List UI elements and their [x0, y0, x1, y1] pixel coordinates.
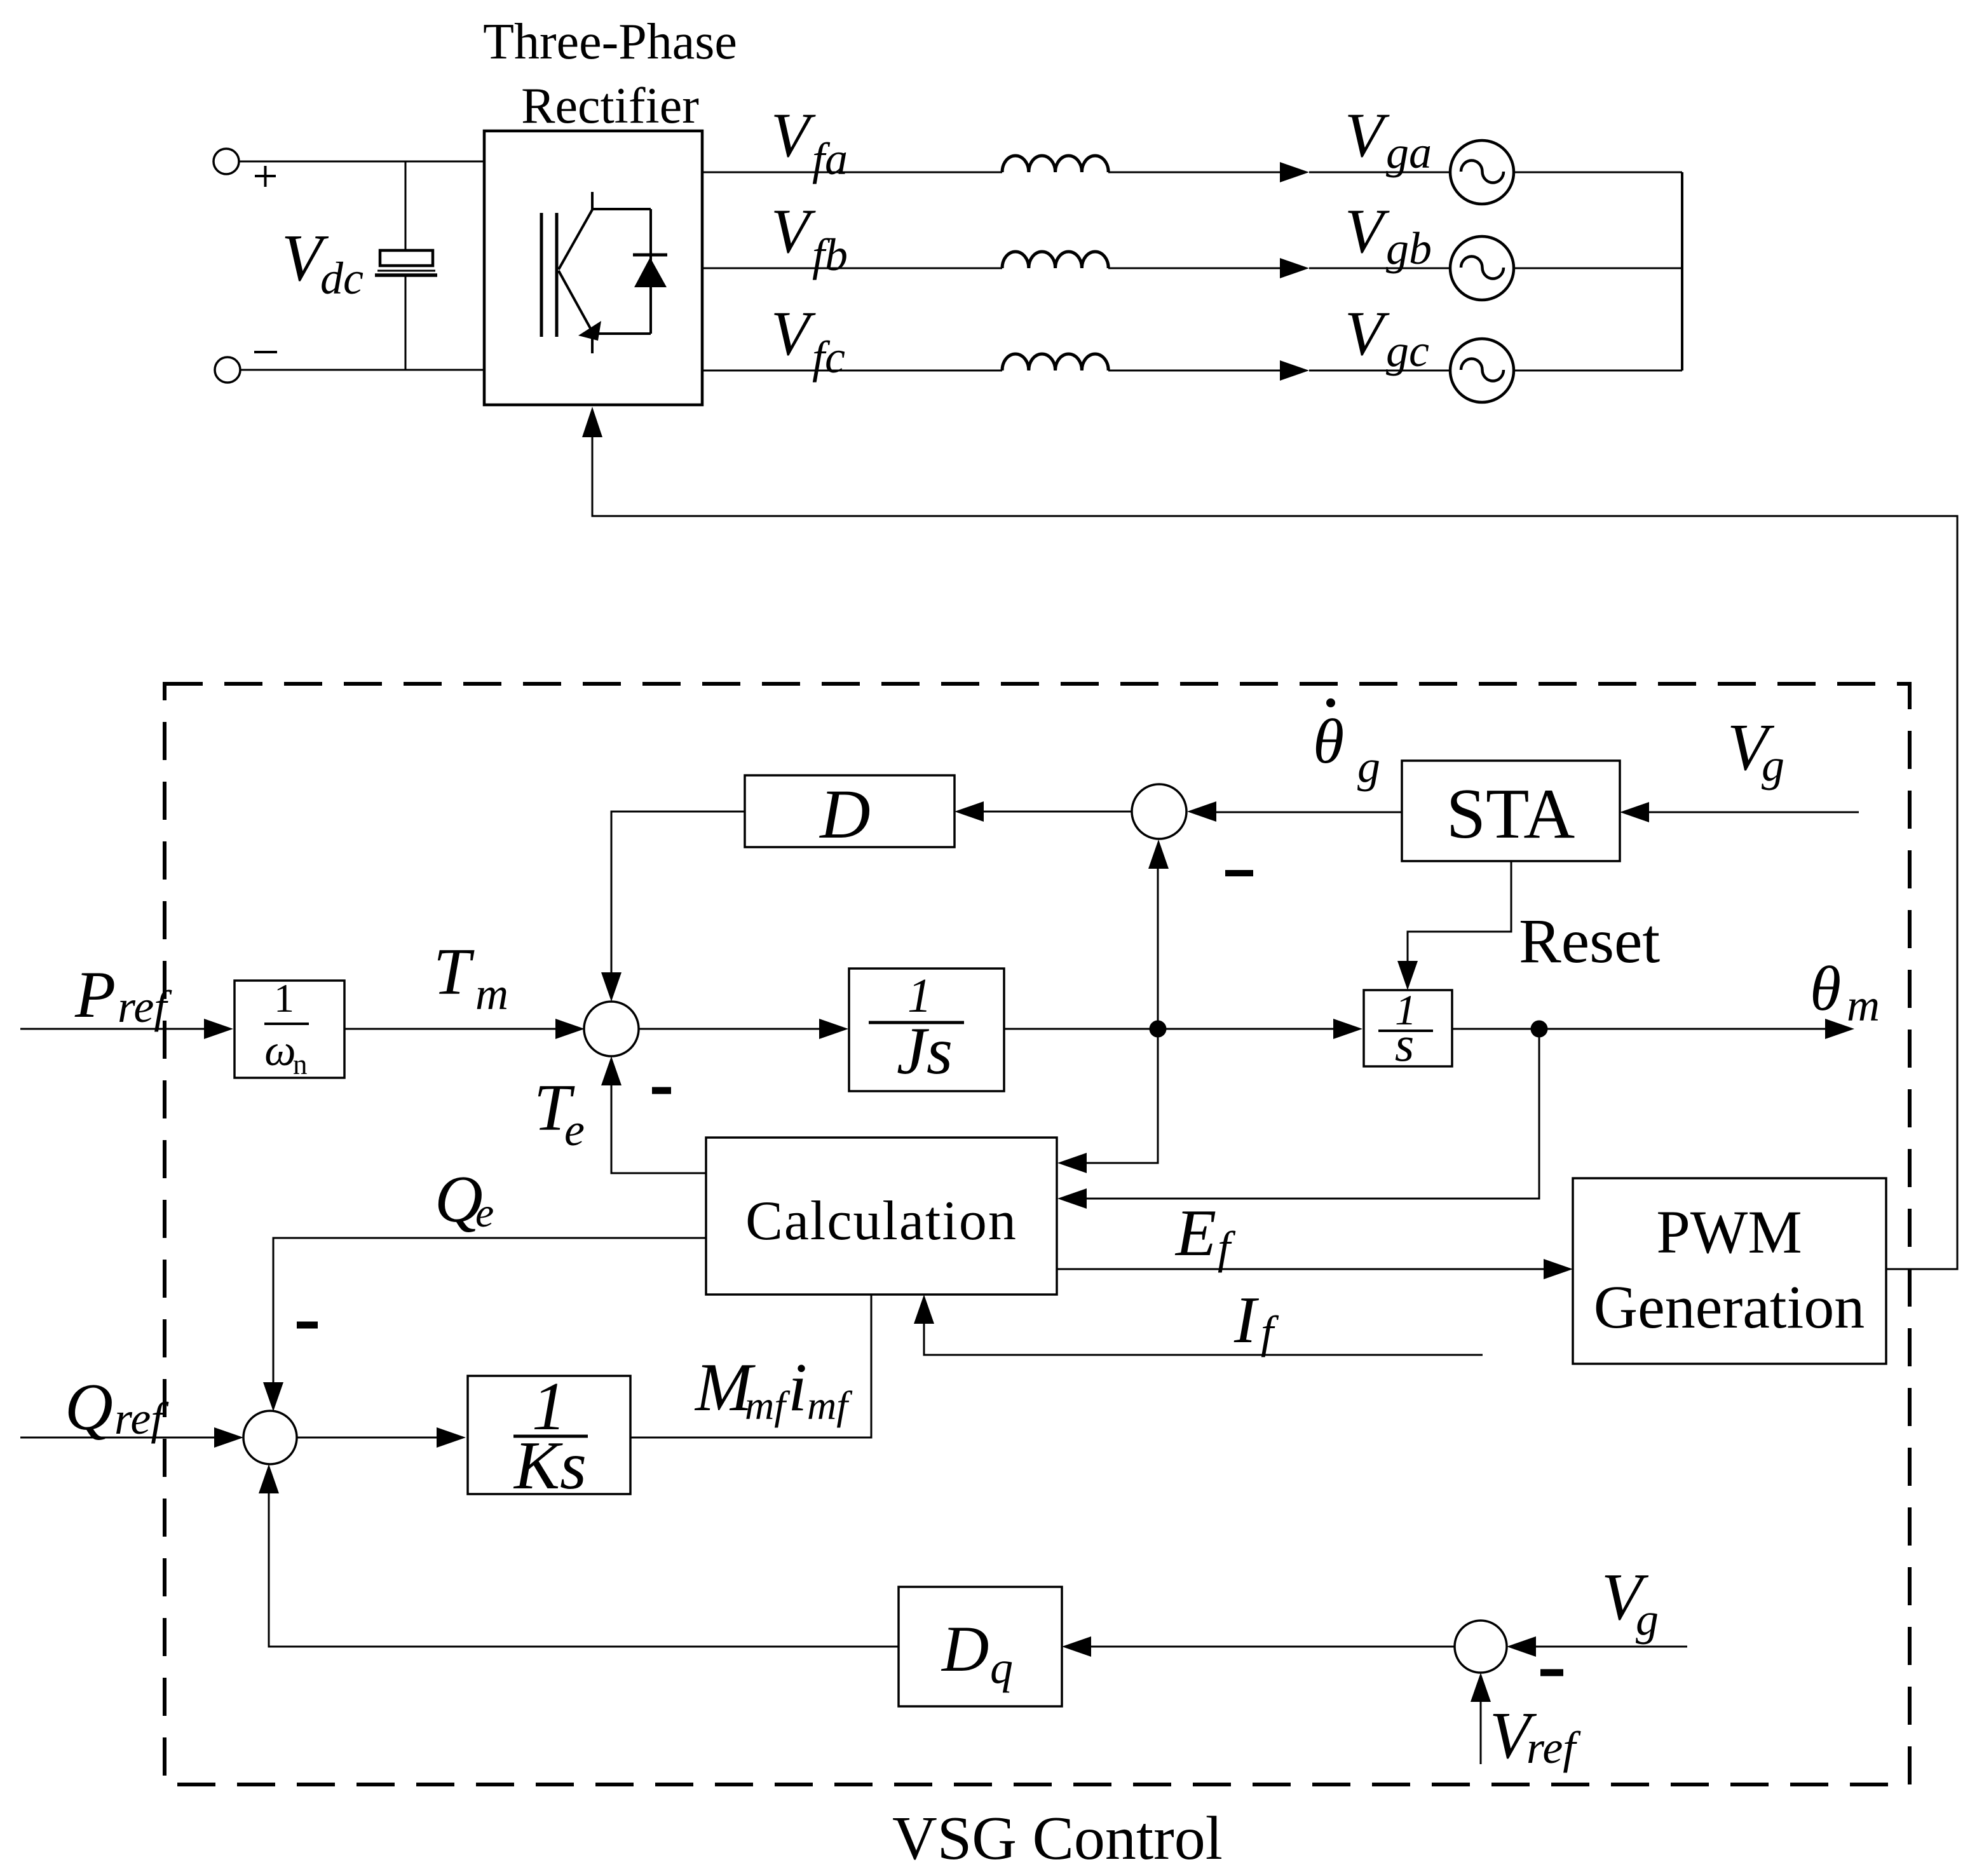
svg-text:f: f	[1218, 1222, 1236, 1273]
svg-text:V: V	[1345, 100, 1390, 170]
label Vg top	[1727, 710, 1784, 791]
terminal - (DC negative)	[215, 357, 240, 383]
arrow into sum2 bottom	[1148, 839, 1169, 869]
wire phase a to source	[1309, 172, 1450, 173]
arrow into Calculation right 2	[1057, 1188, 1087, 1209]
wire phase c left	[702, 370, 1002, 372]
arrow into PWM left	[1544, 1259, 1573, 1279]
svg-text:θ: θ	[1313, 706, 1344, 777]
minus sign at sum1	[652, 1087, 671, 1094]
label If	[1233, 1282, 1279, 1357]
wire Reset STA to 1/s	[1408, 861, 1511, 961]
bus vertical right	[1681, 172, 1683, 370]
svg-text:ref: ref	[118, 981, 172, 1032]
svg-text:V: V	[1345, 196, 1390, 266]
wire capacitor top	[405, 161, 407, 250]
block 1/Ks	[468, 1369, 630, 1504]
svg-text:ref: ref	[1526, 1722, 1581, 1773]
arrow into 1/s	[1333, 1019, 1362, 1039]
svg-text:Three-Phase: Three-Phase	[483, 14, 737, 70]
arrow into STA right	[1620, 802, 1649, 822]
summing junction S3	[243, 1411, 297, 1464]
inductor Lb	[1002, 252, 1108, 268]
label Vga	[1345, 100, 1432, 178]
svg-text:fa: fa	[812, 133, 848, 184]
svg-text:T: T	[433, 934, 475, 1009]
arrow into Calculation right 1	[1057, 1153, 1087, 1173]
svg-text:mf: mf	[745, 1383, 791, 1428]
svg-text:Reset: Reset	[1519, 906, 1660, 976]
arrow into 1/wn	[204, 1019, 233, 1039]
svg-text:s: s	[1395, 1016, 1414, 1071]
block 1/wn	[234, 975, 344, 1080]
AC source Vgc	[1450, 339, 1514, 402]
arrow into sum3	[214, 1427, 243, 1448]
wire Mmf imf to Calculation bottom	[630, 1295, 871, 1438]
freewheel diode D1	[633, 255, 667, 287]
wire phase c middle	[1108, 370, 1280, 372]
wire Qe Calculation to Qref sum top	[273, 1238, 706, 1382]
minus sign at sum3	[297, 1322, 318, 1329]
svg-text:STA: STA	[1446, 775, 1575, 853]
svg-text:θ: θ	[1810, 953, 1841, 1024]
label Mmf imf	[694, 1350, 853, 1428]
terminal + (DC positive)	[214, 149, 239, 174]
minus sign at sum2	[1225, 870, 1253, 876]
svg-text:Generation: Generation	[1594, 1273, 1865, 1341]
block Calculation	[706, 1138, 1057, 1295]
svg-text:Ks: Ks	[513, 1428, 587, 1504]
wire node A up to sum2	[1157, 869, 1159, 1029]
wire PWM output feedback to rectifier	[592, 437, 1957, 1269]
wire phase b left	[702, 268, 1002, 269]
svg-text:g: g	[1357, 741, 1380, 792]
VSG Control dashed boundary	[165, 684, 1910, 1784]
arrow into 1/Js	[819, 1019, 848, 1039]
label Vdc	[282, 221, 363, 304]
svg-text:gc: gc	[1386, 325, 1429, 376]
svg-text:gb: gb	[1386, 223, 1432, 274]
arrow into rectifier bottom	[582, 407, 602, 437]
minus sign at sum4	[1540, 1669, 1563, 1676]
arrow phase c	[1280, 360, 1309, 381]
node dot A	[1150, 1021, 1167, 1038]
block 1/Js	[849, 969, 1004, 1091]
label Ef	[1174, 1195, 1236, 1273]
arrow Qe into sum3 top	[263, 1382, 283, 1411]
svg-text:PWM: PWM	[1656, 1198, 1802, 1266]
block Dq	[899, 1587, 1062, 1706]
label Vref	[1490, 1698, 1581, 1773]
svg-text:Q: Q	[65, 1370, 113, 1444]
svg-text:g: g	[1762, 740, 1784, 791]
wire source b to bus	[1514, 268, 1682, 269]
svg-text:Rectifier: Rectifier	[521, 78, 699, 134]
label Vgb	[1345, 196, 1432, 274]
svg-text:m: m	[475, 969, 508, 1019]
label Vg bottom	[1601, 1560, 1659, 1645]
label Three-Phase Rectifier	[483, 14, 737, 134]
label theta_m	[1810, 953, 1880, 1031]
wire Qref input	[20, 1437, 214, 1439]
wire phase b to source	[1309, 268, 1450, 269]
arrow into Dq right	[1062, 1636, 1091, 1657]
wire Vg into sum4	[1536, 1646, 1687, 1648]
arrow phase b	[1280, 258, 1309, 278]
svg-text:E: E	[1174, 1195, 1216, 1270]
label theta_g dot	[1313, 698, 1380, 792]
wire STA to sum2	[1216, 812, 1402, 813]
svg-text:f: f	[1261, 1307, 1279, 1357]
wire phase c to source	[1309, 370, 1450, 372]
svg-text:ω: ω	[264, 1026, 296, 1075]
svg-text:e: e	[475, 1190, 494, 1236]
arrow phase a	[1280, 162, 1309, 182]
wire source a to bus	[1514, 172, 1682, 173]
svg-text:VSG Control: VSG Control	[892, 1804, 1223, 1873]
label Tm	[433, 934, 508, 1019]
block STA	[1402, 761, 1620, 861]
svg-text:D: D	[819, 775, 870, 853]
wire sum1 to 1/Js	[639, 1028, 819, 1030]
wire phase a left	[702, 172, 1002, 173]
wire Pref input	[20, 1028, 204, 1030]
svg-text:Calculation: Calculation	[745, 1190, 1017, 1252]
wire Te Calculation to sum1 bottom	[611, 1085, 706, 1173]
svg-text:Js: Js	[897, 1014, 953, 1088]
wire D to sum1 top	[611, 812, 745, 972]
label Vfb	[771, 196, 848, 280]
svg-text:g: g	[1636, 1594, 1659, 1645]
svg-text:m: m	[1847, 980, 1880, 1031]
arrow into sum1 top	[601, 972, 622, 1002]
IGBT symbol inside rectifier	[541, 192, 651, 353]
svg-text:fc: fc	[812, 332, 845, 383]
block PWM Generation	[1573, 1178, 1886, 1364]
block 1/s	[1364, 986, 1452, 1071]
wire phase a middle	[1108, 172, 1280, 173]
svg-text:V: V	[771, 196, 816, 266]
three-phase rectifier block U1	[484, 131, 702, 405]
wire theta feedback node B to Calculation	[1087, 1029, 1539, 1199]
svg-text:P: P	[74, 957, 116, 1031]
arrow into sum1 bottom	[601, 1056, 622, 1085]
svg-text:fb: fb	[812, 229, 848, 280]
svg-text:V: V	[771, 298, 816, 369]
svg-text:1: 1	[274, 975, 294, 1021]
block D	[745, 775, 955, 853]
arrow Vref into sum4	[1471, 1673, 1491, 1702]
node dot B	[1531, 1021, 1548, 1038]
wire Vref into sum4 bottom	[1480, 1702, 1482, 1764]
wire phase b middle	[1108, 268, 1280, 269]
arrow theta_m	[1825, 1019, 1854, 1039]
arrow into sum1	[555, 1019, 585, 1039]
label Vfc	[771, 298, 845, 383]
arrow into sum4 right	[1507, 1636, 1536, 1657]
wire source c to bus	[1514, 370, 1682, 372]
label Vfa	[771, 100, 848, 184]
svg-text:D: D	[941, 1613, 989, 1685]
summing junction S2	[1132, 784, 1186, 839]
label Vgc	[1345, 298, 1429, 376]
label Qref	[65, 1370, 169, 1444]
wire sum3 to 1/Ks	[297, 1437, 437, 1439]
plus sign	[255, 166, 276, 187]
arrow into sum2 right	[1187, 801, 1216, 822]
svg-text:I: I	[1233, 1282, 1260, 1357]
arrow If into Calculation	[914, 1295, 934, 1324]
svg-text:dc: dc	[320, 253, 363, 304]
svg-text:e: e	[564, 1105, 585, 1155]
wire Tm	[344, 1028, 555, 1030]
wire theta_m output	[1452, 1028, 1825, 1030]
arrow Reset into 1/s top	[1397, 961, 1418, 990]
wire Vg into STA	[1649, 812, 1859, 813]
svg-text:q: q	[990, 1642, 1013, 1693]
svg-text:n: n	[293, 1049, 308, 1080]
IGBT emitter arrow	[578, 321, 601, 341]
wire If into Calculation bottom	[924, 1323, 1483, 1355]
svg-text:ref: ref	[114, 1393, 169, 1444]
label Pref	[74, 957, 172, 1032]
wire DC+ to rectifier	[239, 161, 484, 163]
svg-text:ga: ga	[1386, 127, 1432, 178]
label Qe	[435, 1162, 494, 1236]
label Te	[534, 1070, 585, 1155]
arrow into 1/Ks	[437, 1427, 466, 1448]
inductor Lc	[1002, 354, 1108, 370]
summing junction S1	[584, 1002, 639, 1056]
wire Ef Calculation to PWM	[1057, 1268, 1544, 1270]
arrow into sum3 bottom	[259, 1464, 279, 1493]
svg-text:mf: mf	[807, 1383, 853, 1428]
AC source Vgb	[1450, 236, 1514, 300]
svg-text:i: i	[788, 1350, 807, 1425]
svg-text:V: V	[1345, 298, 1390, 369]
summing junction S4 (Vg/Vref)	[1455, 1621, 1507, 1673]
wire omega feedback node A to Calculation	[1087, 1029, 1158, 1163]
minus sign	[254, 351, 277, 353]
svg-text:V: V	[771, 100, 816, 170]
wire Dq to sum3 bottom	[269, 1493, 899, 1647]
wire sum2 to D	[984, 811, 1132, 813]
wire DC- to rectifier	[240, 369, 484, 371]
capacitor C (Vdc bus)	[375, 250, 437, 275]
wire capacitor bottom	[405, 275, 407, 370]
inductor La	[1002, 156, 1108, 172]
wire 1/Js to 1/s	[1004, 1028, 1333, 1030]
wire sum4 to Dq	[1091, 1646, 1455, 1648]
AC source Vga	[1450, 140, 1514, 204]
arrow into D right	[955, 801, 984, 822]
